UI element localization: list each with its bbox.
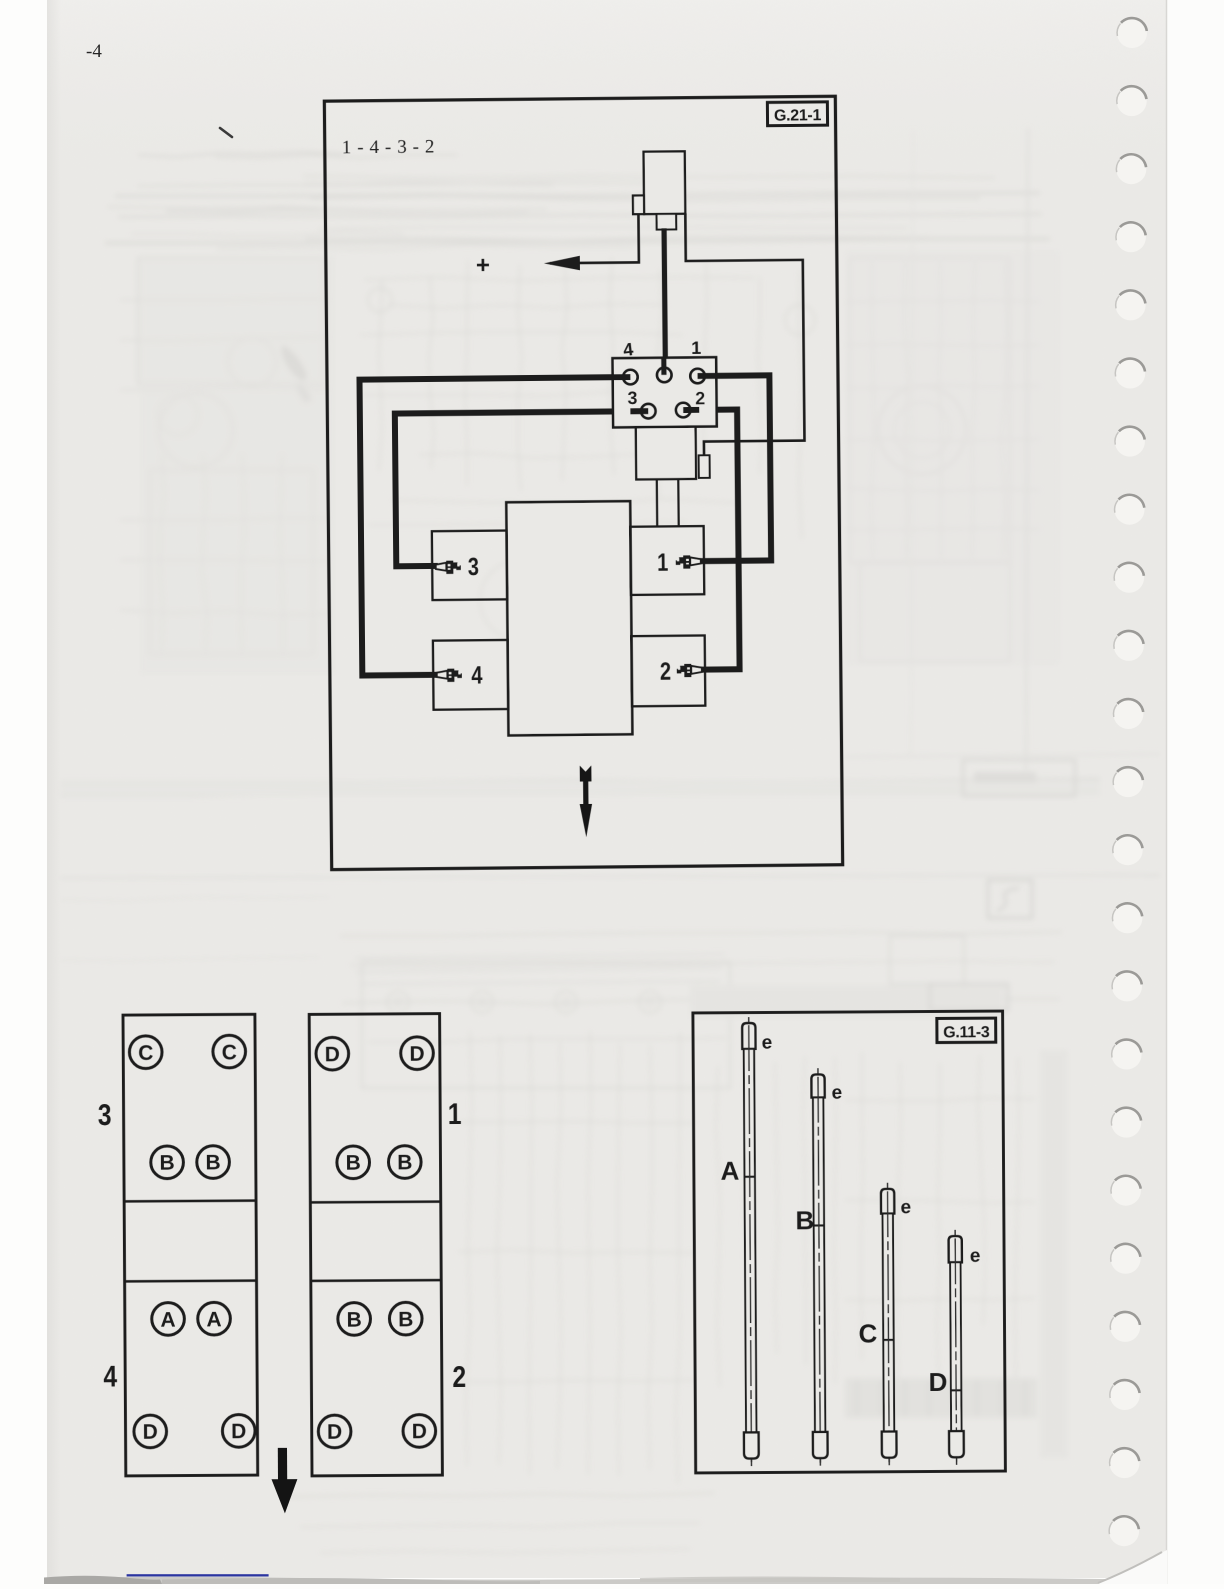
svg-text:A: A	[160, 1308, 175, 1331]
svg-text:G.21-1: G.21-1	[774, 107, 822, 124]
svg-text:C: C	[858, 1318, 877, 1348]
svg-text:3: 3	[627, 388, 637, 408]
svg-text:B: B	[346, 1152, 361, 1175]
push rod A bottom cap	[744, 1432, 759, 1458]
spark plug 2	[677, 664, 702, 677]
rocker shim D top right	[401, 1037, 434, 1070]
cylinder box 4	[433, 640, 508, 710]
rocker shim D bottom right	[222, 1415, 255, 1448]
wire + supply from coil tab	[549, 214, 638, 263]
svg-text:B: B	[159, 1152, 174, 1175]
distributor cap	[613, 357, 717, 427]
rocker shim B left	[151, 1146, 184, 1179]
HT wire coil to distributor	[661, 228, 668, 374]
rocker shim B lower right	[389, 1302, 422, 1335]
push rod D axis	[955, 1230, 956, 1465]
svg-text:A: A	[720, 1156, 739, 1186]
cylinder box 1	[630, 526, 704, 595]
distributor body	[636, 427, 696, 480]
svg-text:1: 1	[691, 338, 701, 358]
svg-text:G.11-3: G.11-3	[943, 1024, 990, 1041]
blue underline bottom left	[127, 1574, 269, 1576]
HT wire 2: distributor to plug 2	[683, 410, 739, 670]
svg-text:A: A	[206, 1308, 221, 1331]
push rod B axis inner	[818, 1077, 820, 1463]
push rod D body	[950, 1262, 961, 1431]
push rod A axis inner	[749, 1025, 752, 1463]
push rod C axis	[888, 1183, 890, 1465]
svg-text:2: 2	[452, 1361, 466, 1394]
push rod B top cap	[811, 1074, 824, 1097]
cylinder box 2	[631, 635, 705, 706]
svg-text:B: B	[205, 1152, 220, 1175]
push rod D top cap	[949, 1236, 962, 1262]
svg-text:C: C	[222, 1041, 237, 1064]
label box G.11-3	[937, 1018, 996, 1042]
push rod D axis inner	[955, 1238, 956, 1461]
push rod D joint	[951, 1389, 961, 1391]
push rod B joint	[814, 1224, 824, 1226]
valve panel 3-4	[123, 1014, 258, 1476]
svg-text:1 - 4 - 3 - 2: 1 - 4 - 3 - 2	[342, 136, 435, 158]
rocker shim B lower left	[338, 1303, 371, 1336]
spark plug 1	[676, 555, 701, 568]
spark plug 4	[437, 669, 462, 682]
svg-text:1: 1	[448, 1098, 462, 1131]
pipe right body to engine	[677, 479, 680, 526]
svg-text:e: e	[970, 1246, 981, 1267]
svg-text:3: 3	[98, 1099, 112, 1132]
push rod A top cap	[742, 1023, 755, 1049]
svg-text:B: B	[347, 1308, 362, 1331]
svg-text:e: e	[762, 1032, 773, 1053]
svg-text:D: D	[231, 1420, 246, 1443]
push rod C joint	[883, 1339, 893, 1341]
frame of figure G.21-1	[324, 96, 842, 869]
rocker shim A left	[152, 1303, 185, 1336]
label box G.21-1	[767, 102, 827, 126]
page right edge	[1167, 0, 1224, 1584]
push rod B bottom cap	[813, 1432, 828, 1458]
push rod A joint	[744, 1176, 754, 1178]
condenser	[699, 455, 710, 478]
rocker shim C right	[213, 1035, 246, 1068]
push rod A body	[744, 1049, 757, 1433]
svg-text:e: e	[900, 1197, 911, 1218]
torn bottom edge	[45, 1577, 1167, 1584]
svg-text:D: D	[325, 1043, 340, 1066]
svg-text:-4: -4	[86, 41, 102, 62]
rocker shim D bottom left	[134, 1415, 167, 1448]
punched binder holes right edge	[1117, 18, 1147, 48]
coil HT tower	[657, 214, 677, 230]
terminal centre	[657, 368, 672, 383]
svg-text:1: 1	[657, 549, 668, 577]
svg-text:C: C	[138, 1042, 153, 1065]
rocker shim B right	[197, 1146, 230, 1179]
rocker shim D top left	[316, 1037, 349, 1070]
rotation direction arrow	[579, 765, 592, 837]
svg-text:D: D	[409, 1043, 424, 1066]
rocker shim D bottom right	[403, 1415, 436, 1448]
push rod C axis inner	[888, 1191, 890, 1462]
push rod B body	[813, 1097, 825, 1432]
pipe left body to engine	[656, 479, 659, 526]
HT wire 1: distributor to plug 1	[697, 375, 771, 561]
svg-text:D: D	[412, 1420, 427, 1443]
HT wire 4: distributor to plug 4	[359, 377, 633, 675]
sequence arrow down	[271, 1448, 297, 1514]
terminal 1	[690, 369, 705, 384]
rocker shim B upper right	[388, 1146, 421, 1179]
stray pen mark	[220, 128, 232, 137]
svg-text:2: 2	[660, 658, 671, 686]
HT wire 3: distributor to plug 3	[395, 411, 650, 566]
rocker shim A right	[198, 1302, 231, 1335]
svg-text:D: D	[929, 1367, 948, 1397]
frame of figure G.11-3	[693, 1011, 1006, 1473]
svg-text:+: +	[476, 252, 490, 279]
coil + terminal tab	[633, 195, 644, 214]
spark plug 3	[436, 561, 461, 574]
svg-text:e: e	[832, 1083, 843, 1104]
push rod A axis	[749, 1017, 752, 1466]
push rod D bottom cap	[949, 1431, 964, 1457]
rocker shim B upper left	[337, 1146, 370, 1179]
engine block	[506, 501, 632, 735]
terminal 4	[623, 370, 638, 385]
svg-text:2: 2	[695, 388, 705, 408]
push rod C body	[883, 1214, 895, 1432]
wire coil to condenser (LT)	[685, 212, 804, 455]
svg-text:B: B	[795, 1205, 814, 1235]
terminal 2	[676, 403, 691, 418]
wire stubs into terminals	[613, 374, 631, 380]
torn corner bottom right	[1098, 1550, 1167, 1584]
arrowhead supply	[544, 256, 580, 271]
cylinder box 3	[432, 531, 507, 601]
push rod B axis	[818, 1068, 820, 1465]
rocker shim D bottom left	[318, 1415, 351, 1448]
rocker shim C left	[129, 1036, 162, 1069]
ignition coil body	[644, 151, 686, 214]
push rod C top cap	[881, 1189, 894, 1214]
svg-text:D: D	[143, 1421, 158, 1444]
svg-text:B: B	[398, 1308, 413, 1331]
svg-text:3: 3	[468, 553, 479, 581]
terminal 3	[641, 404, 656, 419]
svg-text:4: 4	[103, 1360, 117, 1393]
valve panel 1-2	[309, 1014, 442, 1476]
push rod C bottom cap	[882, 1432, 897, 1458]
svg-text:D: D	[327, 1421, 342, 1444]
svg-text:B: B	[397, 1151, 412, 1174]
svg-text:4: 4	[471, 661, 482, 689]
